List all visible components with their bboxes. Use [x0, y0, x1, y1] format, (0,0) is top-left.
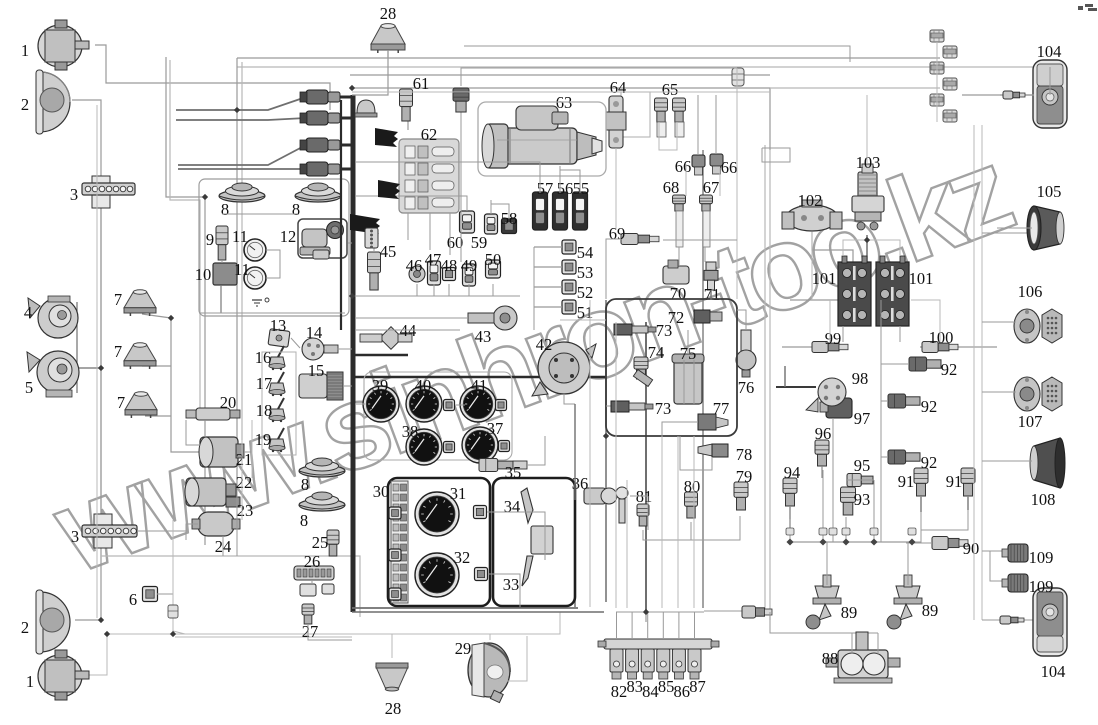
- grommet 107b: [1042, 377, 1062, 411]
- connector 26: [294, 566, 334, 596]
- svg-text:108: 108: [1031, 490, 1056, 509]
- svg-text:43: 43: [475, 327, 492, 346]
- panel conn e: [389, 588, 401, 600]
- coil connector 4: [300, 162, 340, 176]
- svg-text:93: 93: [854, 490, 871, 509]
- wire 90 left: [906, 542, 932, 544]
- wire mid v627: [626, 480, 628, 608]
- svg-text:92: 92: [921, 453, 938, 472]
- sensor 68: [673, 195, 686, 247]
- svg-text:7: 7: [114, 290, 122, 309]
- sensor 96: [815, 440, 829, 478]
- sensor 81: [637, 504, 649, 526]
- wire right pair a2: [973, 125, 975, 620]
- wire y88 bus: [352, 88, 770, 150]
- svg-text:62: 62: [421, 125, 438, 144]
- wire panel right a: [487, 512, 545, 560]
- svg-text:80: 80: [684, 477, 701, 496]
- wire 103 to bat: [866, 235, 868, 262]
- svg-text:66: 66: [721, 158, 738, 177]
- sensor 67: [700, 195, 713, 247]
- valve 23: [226, 497, 240, 507]
- coil wire left row 3: [178, 145, 306, 165]
- svg-text:59: 59: [471, 233, 488, 252]
- coil wire row 3: [340, 144, 352, 147]
- wire mid drop: [605, 300, 607, 602]
- svg-text:77: 77: [713, 399, 730, 418]
- lamp 1 top: [38, 20, 89, 70]
- svg-text:29: 29: [455, 639, 472, 658]
- injectors 82-87: [598, 612, 719, 679]
- connector 52: [534, 280, 576, 294]
- panel conn b: [475, 568, 488, 581]
- svg-text:12: 12: [280, 227, 297, 246]
- wire 24 drop: [222, 536, 224, 556]
- wire 109b link: [990, 551, 1006, 581]
- wire 14 right: [337, 348, 352, 350]
- bus junctions: [786, 538, 915, 545]
- svg-text:65: 65: [662, 80, 679, 99]
- v881: [880, 300, 882, 542]
- gear box 33-34: [531, 526, 553, 554]
- cone lamp 7b: [124, 343, 156, 369]
- svg-text:8: 8: [300, 511, 308, 530]
- wire 28top to y58: [387, 50, 389, 58]
- svg-text:53: 53: [577, 263, 594, 282]
- ground symbol 12: [252, 298, 269, 306]
- relay 15: [299, 372, 343, 400]
- coil wire row 1: [340, 96, 352, 99]
- wire 62 drops c: [449, 213, 451, 255]
- wire bat bus: [790, 299, 838, 301]
- switch 57: [533, 192, 548, 230]
- wire 79 run: [690, 522, 692, 540]
- svg-text:51: 51: [577, 303, 594, 322]
- plate 14: [302, 338, 338, 360]
- wire 21 right: [244, 452, 252, 470]
- wire right top loop: [770, 87, 940, 89]
- 92a stub: [881, 363, 909, 365]
- lamp 104 bottom: [1033, 588, 1067, 656]
- wire 9 10 link: [221, 260, 223, 263]
- svg-text:1: 1: [21, 41, 29, 60]
- drop x833: [832, 418, 834, 542]
- gauge 39: [363, 386, 399, 422]
- wire 55 up: [560, 170, 580, 193]
- wire bat top link: [843, 240, 900, 256]
- wire x461 lower: [460, 110, 462, 262]
- wire 28b link: [391, 634, 393, 658]
- harness comb 2: [378, 180, 400, 199]
- wire x173 lower: [173, 520, 185, 634]
- wire 105 stub2: [997, 227, 1032, 229]
- svg-text:1: 1: [26, 672, 34, 691]
- gauge 40: [406, 386, 442, 422]
- wire 68 down2: [678, 247, 680, 266]
- wire 36 right loop: [630, 495, 648, 497]
- lever 33: [522, 556, 533, 586]
- sensor 93: [841, 487, 856, 515]
- wire cone2: [142, 365, 171, 367]
- wire 9-12 inner bottom: [199, 312, 345, 314]
- coil connector 1: [300, 90, 340, 104]
- device 43: [468, 306, 517, 330]
- horn 4: [28, 296, 78, 338]
- wire panel bottom: [352, 607, 578, 609]
- svg-text:101: 101: [909, 269, 934, 288]
- wire 59 up: [490, 200, 492, 214]
- 97 98 drop: [784, 366, 786, 387]
- wire 73b row: [606, 405, 611, 407]
- starter 63: [482, 106, 602, 168]
- svg-text:3: 3: [70, 185, 78, 204]
- switch 49: [463, 264, 476, 286]
- plug 61: [400, 89, 413, 121]
- wire 71 down: [710, 290, 712, 300]
- svg-text:79: 79: [736, 467, 753, 486]
- wire motors v252: [251, 420, 253, 478]
- svg-text:4: 4: [24, 303, 32, 322]
- wire cluster bottom: [352, 295, 520, 297]
- wire 100 line: [920, 346, 997, 348]
- wire mid v590: [589, 300, 591, 607]
- wire bottom second: [352, 611, 604, 613]
- svg-text:64: 64: [610, 78, 627, 97]
- wire 109 link: [982, 550, 1006, 552]
- svg-text:98: 98: [852, 369, 869, 388]
- main harness vertical: [351, 95, 356, 612]
- gauge conn 37: [499, 441, 510, 452]
- wire 99 line: [782, 346, 813, 348]
- svg-text:9: 9: [206, 230, 214, 249]
- switch 97: [820, 398, 852, 418]
- wire top bus 5: [236, 58, 238, 490]
- drop x846: [845, 517, 847, 542]
- fuse box 62: [399, 139, 459, 213]
- connector ladder: [930, 30, 957, 122]
- wire panel right b: [488, 574, 520, 607]
- sensor 92c: [888, 450, 920, 464]
- wire 56 up: [559, 166, 561, 193]
- wire key col: [574, 502, 576, 607]
- wire under engine c: [693, 436, 695, 608]
- 92b stub: [881, 400, 888, 402]
- wire top bus 1: [95, 45, 330, 110]
- svg-text:2: 2: [21, 618, 29, 637]
- svg-text:41: 41: [471, 376, 488, 395]
- wire 21 left: [186, 420, 200, 445]
- 104t stub conn: [1003, 91, 1025, 99]
- solenoid 103: [852, 164, 884, 230]
- sensor 95: [847, 474, 873, 487]
- 97 98 feed: [776, 386, 816, 388]
- wire 108 stub: [982, 460, 1032, 462]
- sensor 91a: [914, 468, 928, 512]
- svg-text:85: 85: [658, 677, 675, 696]
- connector 69: [621, 234, 659, 245]
- inline connector inj: [742, 606, 772, 618]
- wire 43 left: [356, 317, 468, 319]
- wire ladder to 104: [962, 94, 1034, 96]
- svg-text:97: 97: [854, 409, 871, 428]
- wire gauges link: [356, 403, 365, 405]
- plug 72: [694, 310, 722, 323]
- wire to injectors: [704, 610, 742, 612]
- headlamp 2 bottom: [36, 590, 70, 654]
- svg-text:99: 99: [825, 329, 842, 348]
- wire 64 down: [615, 148, 617, 230]
- switch 19: [269, 428, 285, 452]
- panel conn c: [389, 507, 401, 519]
- switch 18: [269, 398, 285, 422]
- group box 8-12 outer: [199, 179, 349, 316]
- svg-text:7: 7: [117, 393, 125, 412]
- svg-text:74: 74: [648, 343, 665, 362]
- svg-text:102: 102: [798, 191, 823, 210]
- svg-text:25: 25: [312, 533, 329, 552]
- filter 24: [192, 512, 240, 536]
- svg-text:8: 8: [221, 200, 229, 219]
- wire 67 down2: [704, 247, 706, 262]
- tachometer 32: [415, 553, 459, 597]
- svg-text:28: 28: [385, 699, 402, 718]
- terminal strip 3 bottom: [82, 514, 137, 548]
- 91a hook: [912, 512, 921, 542]
- wire 24 left: [186, 524, 198, 540]
- svg-text:104: 104: [1041, 662, 1066, 681]
- wire 29 loop: [498, 636, 527, 681]
- svg-text:10: 10: [195, 265, 212, 284]
- cone lamp 28 top: [371, 24, 405, 53]
- svg-text:19: 19: [255, 430, 272, 449]
- wire 12 right: [348, 242, 352, 244]
- 92c stub: [881, 456, 888, 458]
- wire 15 right: [343, 385, 352, 387]
- sensor 79: [734, 482, 748, 510]
- wire 107 stub: [982, 391, 1016, 393]
- resistor 109a: [1002, 544, 1028, 562]
- wire 69 left: [606, 239, 621, 299]
- gauge group box: [364, 372, 512, 460]
- plug 45: [368, 252, 381, 290]
- svg-text:6: 6: [129, 590, 137, 609]
- svg-text:70: 70: [670, 284, 687, 303]
- corner marks: [1078, 4, 1097, 11]
- switch 47: [428, 261, 441, 285]
- harness h y377: [354, 376, 606, 378]
- sensor bus y542: [790, 541, 912, 543]
- headlamp 2 top: [36, 70, 70, 134]
- drop x823: [822, 470, 824, 542]
- wire 69 right: [663, 239, 737, 241]
- wire 76 up: [737, 310, 746, 330]
- svg-text:83: 83: [626, 677, 643, 696]
- wire 104b link: [982, 619, 1036, 621]
- wire 88 links: [851, 633, 853, 654]
- switch 60: [460, 211, 475, 233]
- right harness vertical: [702, 150, 704, 608]
- bracket 13: [268, 329, 290, 348]
- sensor 94: [783, 478, 797, 528]
- svg-text:7: 7: [114, 342, 122, 361]
- coil wire row 4: [340, 168, 352, 171]
- wire mid h320: [560, 319, 606, 321]
- wire 78 loop: [680, 436, 712, 470]
- sensor 92a: [909, 357, 941, 371]
- plugs 65: [655, 98, 686, 137]
- carburetor 88: [826, 632, 900, 683]
- wire bat down b: [899, 326, 901, 342]
- panel conn d: [389, 549, 401, 561]
- svg-text:26: 26: [304, 552, 321, 571]
- gauge 37: [462, 427, 498, 463]
- cone lamp 28 bottom: [376, 663, 408, 691]
- svg-text:71: 71: [704, 285, 721, 304]
- engine group box: [606, 299, 737, 436]
- wire top bus 3: [237, 67, 1050, 120]
- svg-text:31: 31: [450, 484, 467, 503]
- starter group box2: [478, 102, 606, 176]
- gauge conn 41: [496, 400, 507, 411]
- cone lamp 7a: [124, 290, 156, 316]
- connector 53: [534, 260, 576, 274]
- switch 56: [553, 192, 568, 230]
- wire right pair b2: [981, 125, 983, 620]
- wire 4x drop 449: [448, 284, 450, 296]
- wire 35 right: [527, 436, 545, 465]
- svg-text:46: 46: [406, 256, 423, 275]
- svg-text:30: 30: [373, 482, 390, 501]
- wire 6 stub: [157, 593, 173, 595]
- wire 29 link: [489, 634, 491, 640]
- gauge 11b: [244, 267, 266, 289]
- coil wire left row 4: [178, 168, 306, 170]
- speedometer 31: [415, 492, 459, 536]
- relay 70: [663, 260, 689, 284]
- svg-text:35: 35: [505, 463, 522, 482]
- bus mini connectors: [786, 528, 916, 535]
- wire 26 down: [311, 580, 313, 584]
- spark plug 71: [704, 262, 718, 290]
- wire 36 down right: [647, 496, 649, 530]
- relay 102: [782, 200, 842, 231]
- motor 21: [199, 437, 244, 467]
- speaker 8d: [299, 492, 345, 511]
- svg-text:91: 91: [946, 472, 963, 491]
- svg-text:22: 22: [236, 473, 253, 492]
- svg-text:66: 66: [675, 157, 692, 176]
- harness comb 1: [375, 128, 398, 147]
- resistor 10: [213, 263, 237, 313]
- svg-text:36: 36: [572, 474, 589, 493]
- drop x874b: [873, 480, 875, 542]
- wire left second vertical: [96, 105, 98, 618]
- wiper motor 12: [300, 222, 344, 260]
- wire 20 down: [204, 420, 206, 437]
- headlamp 29: [468, 643, 510, 703]
- horn 5: [27, 351, 79, 397]
- 89a stem: [826, 542, 828, 585]
- svg-text:48: 48: [441, 256, 458, 275]
- wire top y46: [464, 46, 850, 62]
- wire right side v2: [764, 145, 766, 615]
- connector 99: [812, 342, 848, 353]
- speaker 108: [1030, 438, 1065, 488]
- wire 60 up: [356, 196, 467, 211]
- switch 55: [573, 192, 588, 230]
- device 44: [360, 327, 412, 350]
- wire top bus 2: [237, 57, 940, 59]
- ignition switch 36: [584, 487, 628, 523]
- wire 66a down: [685, 164, 687, 196]
- wire y330 run: [356, 329, 460, 331]
- wire mid v616: [615, 322, 617, 608]
- svg-text:89: 89: [922, 601, 939, 620]
- wire x461 vertical: [461, 68, 737, 86]
- connector 54: [534, 240, 576, 254]
- plug x461b: [453, 88, 469, 112]
- svg-text:52: 52: [577, 283, 594, 302]
- distributor 89a: [806, 575, 841, 629]
- motor 22: [185, 478, 236, 506]
- connector 6: [143, 587, 158, 602]
- plug 35: [479, 459, 527, 472]
- wire 102 down: [811, 232, 813, 300]
- wire 45 up: [373, 220, 375, 252]
- wire 100 up: [911, 300, 940, 342]
- wire 61 stem: [407, 112, 409, 130]
- wire strip3b right: [137, 524, 186, 531]
- panel box left: [388, 478, 490, 606]
- svg-text:57: 57: [537, 179, 554, 198]
- svg-text:50: 50: [485, 250, 502, 269]
- wire horns: [76, 302, 78, 393]
- harness comb 3: [350, 214, 380, 234]
- inline connector x173: [168, 605, 178, 618]
- panel box right: [493, 478, 575, 606]
- connector 48: [443, 268, 456, 281]
- svg-text:37: 37: [487, 419, 504, 438]
- svg-text:20: 20: [220, 393, 237, 412]
- wire 11 link: [266, 250, 280, 278]
- wire 66b down: [719, 168, 721, 196]
- switch 16: [269, 346, 285, 370]
- glow plug 74: [633, 357, 652, 386]
- lever 34: [521, 488, 533, 523]
- svg-text:92: 92: [941, 360, 958, 379]
- svg-text:86: 86: [674, 682, 691, 701]
- plate 98: [806, 378, 846, 412]
- sensor 92b: [888, 394, 920, 408]
- wire strip3b down: [100, 207, 102, 525]
- wire bottom run: [101, 556, 360, 617]
- gauge 11a: [244, 239, 266, 261]
- grommet 107a: [1014, 377, 1040, 411]
- svg-text:101: 101: [812, 269, 837, 288]
- speaker 8b: [295, 183, 341, 202]
- svg-text:21: 21: [236, 450, 253, 469]
- wire 28 stem: [352, 50, 388, 95]
- spark plug 73b: [611, 401, 653, 412]
- group box 12: [298, 219, 347, 258]
- wire 102 link: [812, 232, 853, 262]
- wire 42 down: [564, 394, 575, 404]
- switch 59: [485, 214, 498, 234]
- wire 4x drop 417: [416, 284, 418, 296]
- distributor 89b: [887, 575, 922, 629]
- wire x242 extend: [241, 440, 243, 520]
- terminal strip 3 top: [82, 176, 135, 208]
